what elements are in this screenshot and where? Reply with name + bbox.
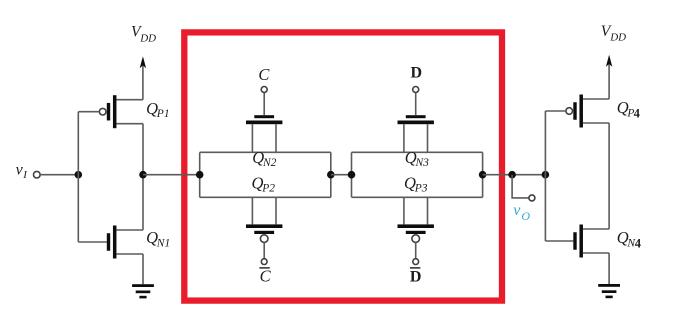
node left inverter output: [139, 171, 147, 179]
wire TG right edge x=330.8: [330, 152, 332, 197]
node input junction: [75, 171, 83, 179]
svg-text:I: I: [22, 169, 28, 181]
wire TG right edge x=482.6: [482, 152, 484, 197]
wire QN1 to ground: [142, 254, 144, 284]
svg-text:N1: N1: [156, 237, 170, 249]
red highlight box around transmission gates: [184, 32, 502, 300]
wire QN1 gate to input line: [78, 241, 107, 243]
svg-text:C: C: [260, 267, 272, 286]
wire QN4 to ground: [608, 253, 610, 284]
wire QP1 source stub to VDD: [116, 99, 143, 101]
wire left inverter output vertical: [142, 124, 144, 230]
wire QP4 source stub to VDD: [583, 98, 609, 100]
label D-bar (bottom of TG2): [410, 268, 422, 286]
svg-text:N3: N3: [415, 157, 430, 169]
svg-text:C: C: [258, 65, 270, 84]
terminal C: [261, 87, 267, 93]
terminal vO: [529, 195, 535, 201]
svg-text:4: 4: [634, 106, 641, 120]
svg-text:P3: P3: [414, 183, 428, 195]
wire QP1 drain stub: [116, 123, 143, 125]
transistor QP4 (PMOS): [566, 95, 583, 128]
wire QP4 gate: [545, 110, 566, 112]
transistor QN3 (NMOS, top of transmission gate): [398, 115, 434, 152]
transistor QP1 (PMOS): [99, 95, 116, 128]
node TG right: [479, 171, 487, 179]
wire right gate vertical line: [544, 111, 546, 241]
node TG left: [348, 171, 356, 179]
wire QP1 gate to input line: [78, 111, 99, 113]
wire QN2 gate up to terminal: [263, 93, 265, 116]
wire QN3 gate up to terminal: [415, 93, 417, 116]
wire QN1 source stub: [116, 253, 143, 255]
wire TG left edge x=351.5: [351, 152, 353, 197]
wire QN1 drain stub: [116, 229, 143, 231]
wire QP3 gate bubble to terminal: [415, 242, 417, 259]
wire QP2 gate bubble to terminal: [263, 242, 265, 259]
wire TG bottom rail: [352, 196, 483, 198]
wire right inverter drain vertical: [608, 123, 610, 229]
svg-text:N2: N2: [262, 157, 277, 169]
wire inverter1 output to TG1: [143, 174, 200, 176]
wire QN4 gate: [545, 240, 573, 242]
wire QN4 source stub: [583, 252, 609, 254]
terminal D-bar (complement): [413, 259, 419, 265]
node vO branch: [508, 171, 516, 179]
wire QP4 drain stub: [583, 122, 609, 124]
svg-text:P1: P1: [156, 108, 170, 120]
wire TG1 to TG2 link: [331, 174, 352, 176]
transistor QN1 (NMOS): [107, 226, 117, 259]
node TG left: [196, 171, 204, 179]
wire TG left edge x=199.7: [199, 152, 201, 197]
svg-text:O: O: [521, 209, 530, 223]
svg-text:P2: P2: [261, 183, 275, 195]
svg-text:4: 4: [635, 236, 642, 250]
wire TG2 output to right inverter: [483, 174, 546, 176]
wire TG top rail: [352, 151, 483, 153]
wire TG bottom rail: [200, 196, 331, 198]
wire QN4 drain stub: [583, 228, 609, 230]
wire TG top rail: [200, 151, 331, 153]
transistor QN2 (NMOS, top of transmission gate): [246, 115, 282, 152]
wire input vertical line: [77, 112, 79, 242]
node right inverter gate: [542, 171, 550, 179]
terminal vI: [34, 171, 41, 178]
node TG right: [327, 171, 335, 179]
VDD arrow (left): [140, 56, 146, 99]
terminal D: [413, 87, 419, 93]
svg-text:D: D: [410, 268, 422, 285]
terminal C-bar (complement): [261, 259, 267, 265]
svg-text:DD: DD: [609, 32, 626, 44]
wire vO stub: [512, 175, 529, 198]
transistor QP3 (PMOS, bottom of transmission gate): [398, 197, 434, 242]
ground (right): [598, 284, 620, 298]
label C-bar (bottom of TG1): [259, 267, 271, 286]
svg-text:D: D: [411, 65, 423, 82]
wire vI to input node: [40, 174, 78, 176]
transistor QN4 (NMOS): [573, 225, 583, 258]
transistor QP2 (PMOS, bottom of transmission gate): [246, 197, 282, 242]
ground (left): [132, 284, 154, 298]
svg-text:DD: DD: [139, 32, 156, 44]
svg-text:v: v: [513, 202, 521, 219]
VDD arrow (right): [606, 55, 612, 99]
